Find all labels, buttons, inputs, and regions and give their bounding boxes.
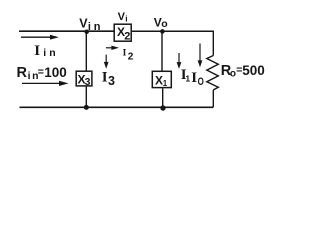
label Io bbox=[191, 70, 204, 88]
wire: Vin node down to X3 top bbox=[85, 31, 87, 70]
svg-text:100: 100 bbox=[44, 65, 67, 80]
label X1 (inside box) bbox=[155, 73, 168, 88]
label Vin bbox=[79, 16, 103, 33]
wire: top rail left segment (input to X2) bbox=[19, 30, 114, 32]
wire: X3 bottom to bottom rail bbox=[85, 87, 87, 108]
svg-text:3: 3 bbox=[108, 74, 115, 88]
svg-text:=: = bbox=[38, 66, 44, 78]
svg-text:in: in bbox=[88, 21, 103, 33]
svg-text:500: 500 bbox=[242, 63, 265, 78]
svg-text:1: 1 bbox=[185, 74, 190, 84]
svg-text:o: o bbox=[230, 68, 236, 79]
wire: Ro bottom lead bbox=[212, 90, 214, 107]
wire: X1 bottom to bottom rail bbox=[162, 88, 164, 107]
svg-text:i: i bbox=[125, 13, 127, 23]
label Vo bbox=[154, 16, 168, 31]
label Ro=500 bbox=[221, 63, 265, 79]
svg-text:2: 2 bbox=[128, 52, 134, 63]
arrow Io (down) bbox=[198, 44, 203, 68]
svg-text:3: 3 bbox=[85, 76, 91, 88]
svg-text:o: o bbox=[161, 18, 167, 30]
label Iin bbox=[34, 43, 58, 59]
arrow i2 (current into X2 lower-left, right) bbox=[106, 46, 119, 50]
arrow I3 (down) bbox=[104, 55, 109, 69]
block X2 (box) bbox=[114, 24, 131, 41]
resistor Ro zigzag bbox=[207, 56, 219, 90]
svg-text:O: O bbox=[198, 76, 205, 88]
wire: top rail right segment (X2 to Ro corner) bbox=[132, 30, 213, 32]
block X1 (box) bbox=[152, 71, 171, 87]
label I3 bbox=[102, 70, 115, 88]
svg-text:I: I bbox=[191, 70, 197, 86]
svg-text:I: I bbox=[34, 43, 40, 59]
label X2 (inside box) bbox=[117, 25, 130, 42]
node Vin (junction dot) bbox=[84, 30, 89, 35]
svg-text:1: 1 bbox=[163, 79, 168, 88]
wire: bottom rail bbox=[20, 106, 214, 108]
svg-text:I: I bbox=[123, 49, 127, 59]
label I2 bbox=[123, 49, 134, 63]
label Rin=100 bbox=[17, 65, 67, 82]
node Vo (junction dot) bbox=[160, 29, 165, 34]
svg-text:R: R bbox=[17, 65, 28, 81]
node: bottom junction below X3 bbox=[84, 105, 89, 110]
label Vi (above X2) bbox=[118, 11, 128, 24]
arrow Rin (points right) bbox=[22, 81, 69, 86]
arrow I1 (down) bbox=[177, 53, 182, 69]
label I1 bbox=[181, 67, 191, 84]
wire: Vo node down to X1 top bbox=[161, 31, 163, 71]
wire: Ro top lead (corner down from top rail) bbox=[212, 31, 214, 56]
block X3 (box) bbox=[76, 71, 92, 86]
svg-text:in: in bbox=[43, 47, 58, 59]
arrow Iin (current arrow, right) bbox=[21, 35, 59, 40]
node: bottom junction below X1 bbox=[160, 105, 165, 110]
svg-text:2: 2 bbox=[124, 30, 130, 42]
svg-text:I: I bbox=[102, 70, 108, 86]
label X3 (inside box) bbox=[78, 73, 91, 89]
